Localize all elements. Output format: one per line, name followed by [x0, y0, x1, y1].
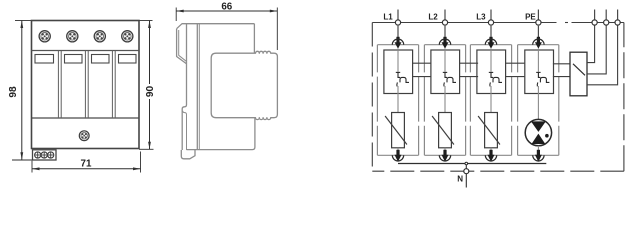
In box PE	[525, 50, 554, 94]
remote contact wire 1	[587, 25, 595, 63]
wire stub above PE terminal	[537, 10, 539, 20]
side view base top	[177, 24, 255, 29]
extension line right (66)	[276, 8, 278, 51]
module dashed outer box L1	[377, 45, 418, 156]
terminal screw 2	[67, 31, 78, 42]
extension line bottom (98)	[12, 159, 33, 161]
varistor diagonal L1	[385, 116, 407, 145]
enclosure dashed border left	[371, 23, 373, 172]
inter-module link L1-L2 upper	[413, 62, 432, 64]
module label window 1	[35, 55, 54, 64]
thermal disconnector bottom PE	[533, 150, 544, 162]
plug-in module outline with ribs	[211, 51, 277, 119]
svg-text:L2: L2	[428, 12, 438, 21]
In symbol PE	[536, 72, 549, 86]
svg-text:71: 71	[81, 159, 92, 170]
wire inside In box L1	[397, 49, 399, 72]
remote terminal circle 2	[604, 20, 609, 25]
mounting foot	[181, 150, 195, 159]
bottom terminal screw 2	[41, 152, 47, 158]
module separator 2	[84, 51, 86, 119]
wire PE down to disconnector	[537, 26, 539, 38]
wire inside In box PE	[537, 49, 539, 72]
thermal disconnector top L1	[392, 37, 403, 49]
extension line bottom (90)	[139, 148, 154, 150]
bottom bus	[398, 163, 546, 165]
remote contact wire 3	[587, 25, 618, 85]
terminal screw 1	[39, 31, 50, 42]
L3 column (terminal, disconnectors, In box, varistor)	[470, 10, 511, 162]
remote terminal circle 3	[615, 20, 620, 25]
svg-text:66: 66	[221, 1, 232, 12]
svg-text:L1: L1	[383, 12, 393, 21]
base right edge upper	[253, 24, 255, 53]
terminal screw 4	[122, 31, 133, 42]
terminal cover bottom line	[32, 50, 140, 52]
remote stub above circle 3	[617, 10, 619, 20]
base front face line 1	[196, 24, 198, 150]
indicator top triangle	[531, 121, 546, 131]
indicator dot	[545, 134, 549, 138]
dimension 71 line	[32, 152, 141, 173]
indicator / spark gap circle	[525, 119, 551, 145]
extension line right vertical (71)	[140, 152, 142, 173]
thermal disconnector top PE	[533, 37, 544, 49]
wire varistor to bottom disconnector L1	[397, 148, 399, 152]
bracket right wall upper	[182, 24, 186, 150]
indicator bottom triangle	[532, 134, 546, 144]
top border dash segment	[565, 22, 568, 24]
thermal disconnector bottom L1	[392, 150, 403, 162]
N wire upper	[465, 165, 467, 169]
N wire lower	[465, 174, 467, 188]
module separator 1	[57, 51, 59, 119]
enclosure dashed border right	[623, 23, 625, 172]
module dashed outer box PE	[518, 45, 559, 156]
inter-module link L3-PE upper	[506, 62, 525, 64]
svg-text:PE: PE	[525, 12, 536, 21]
top line right portion to corner	[572, 22, 624, 24]
inter-module link L1-L2 lower	[413, 76, 432, 78]
module label window 2	[65, 55, 83, 64]
inter-module link L3-PE lower	[506, 76, 525, 78]
L1 column	[377, 10, 418, 162]
front view outer body	[32, 21, 140, 149]
wire L1 down to disconnector	[397, 26, 399, 38]
changeover contact diagonal	[573, 64, 585, 76]
link PE module to remote contact upper	[553, 63, 578, 65]
remote signalling contact box	[570, 52, 587, 96]
wire stub above L1 terminal	[397, 10, 399, 20]
terminal screw 3	[94, 31, 105, 42]
In symbol L1	[396, 72, 409, 86]
dimension text 90	[145, 84, 156, 99]
module label window 4	[119, 55, 137, 64]
remote contact wire 2	[587, 25, 606, 74]
module bottom line	[32, 117, 140, 119]
inter-module link L2-L3 lower	[460, 76, 479, 78]
extension line left vertical (71)	[31, 161, 33, 173]
wire In box to indicator lamp	[537, 86, 539, 120]
In box L1	[384, 50, 413, 94]
base screw	[79, 131, 89, 141]
dimension 98 line	[12, 21, 33, 161]
PE column	[518, 10, 559, 162]
remote stub above circle 2	[605, 10, 607, 20]
base front face line 2	[198, 24, 200, 150]
varistor L1	[392, 113, 405, 148]
module label window 3	[92, 55, 110, 64]
wire In box to varistor L1	[397, 86, 399, 113]
svg-text:98: 98	[8, 86, 19, 98]
top terminal line (merged with enclosure top)	[372, 22, 556, 24]
N terminal circle	[464, 169, 469, 174]
terminal circle PE	[536, 20, 541, 25]
bracket notch lower line	[183, 111, 187, 150]
remote terminal circle 1	[592, 20, 597, 25]
remote stub above circle 1	[594, 10, 596, 20]
bottom terminal screw 3	[48, 152, 54, 158]
bottom terminal box	[33, 150, 57, 160]
dimension 66 line	[176, 8, 277, 51]
inter-module link L2-L3 upper	[460, 62, 479, 64]
DIN claw outer edge	[177, 29, 187, 64]
module separator 3	[111, 51, 113, 119]
svg-text:90: 90	[145, 86, 156, 98]
bottom terminal screw 1	[35, 152, 41, 158]
top edge extension line	[15, 20, 153, 22]
dimension 90 line	[139, 21, 154, 150]
bus junction node	[465, 162, 468, 165]
svg-text:N: N	[457, 174, 463, 183]
terminal circle L1	[395, 20, 400, 25]
enclosure dashed border bottom	[372, 170, 624, 172]
wire lamp to bottom disconnector	[537, 146, 539, 152]
DIN claw inner edge	[179, 30, 187, 61]
L2 column (terminal, disconnectors, In box, varistor)	[424, 10, 465, 162]
base lower-right below module	[187, 118, 255, 150]
link PE module to remote contact lower	[553, 76, 580, 78]
svg-text:L3: L3	[476, 12, 486, 21]
extension line left (66)	[175, 8, 177, 22]
